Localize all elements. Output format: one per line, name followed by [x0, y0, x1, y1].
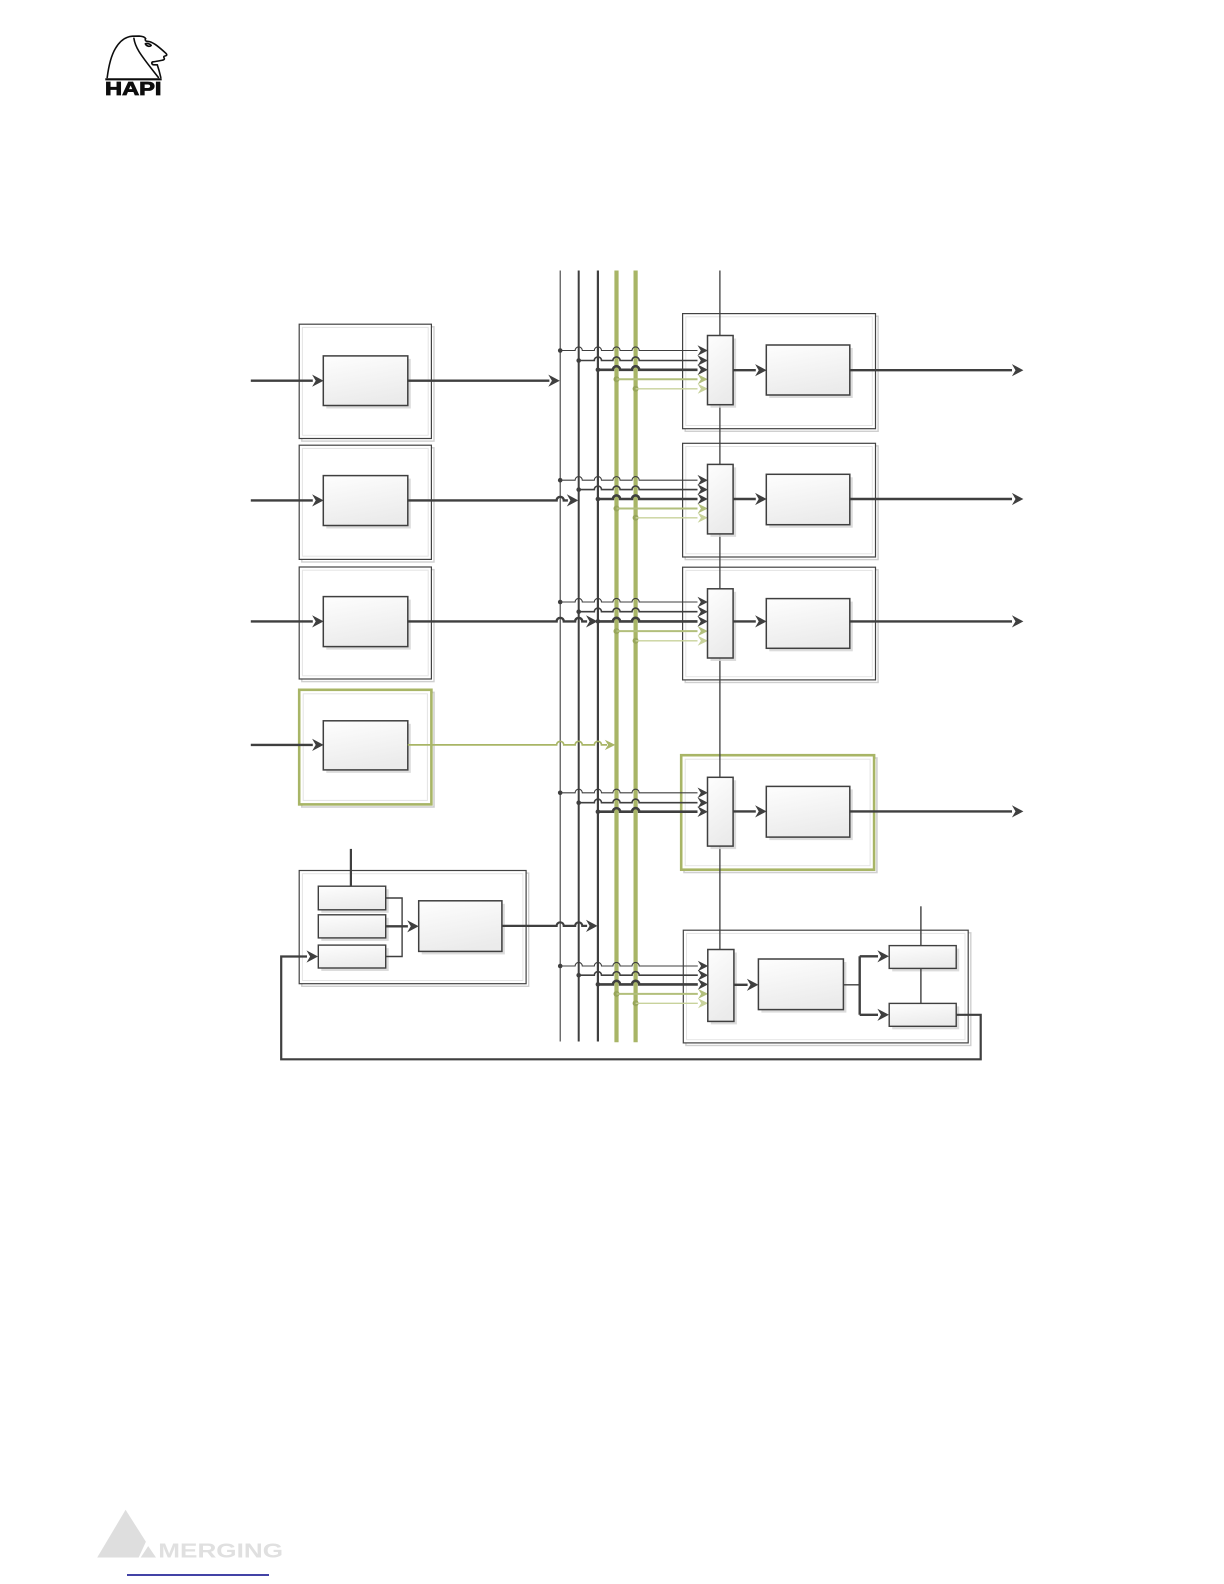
wire: mux 5 to monitor block [734, 979, 759, 991]
wire: bus 4 tap to output mux 1 [614, 374, 708, 384]
mix block [419, 901, 505, 955]
bus line 2 [578, 271, 580, 1042]
output block 4 [766, 786, 853, 840]
monitor out box upper [889, 946, 959, 972]
output mux 4 [708, 777, 737, 849]
wire: mux 1 to output block 1 [733, 364, 767, 376]
wire: mux 4 to output block 4 [733, 805, 767, 817]
wire: bus 1 tap to output mux 1 [558, 345, 708, 356]
wire: bus 5 tap to output mux 5 [633, 998, 709, 1008]
HAPI logo lion head [107, 36, 167, 77]
output group 3 outer box [683, 567, 879, 682]
wire: bus 3 tap to output mux 3 [596, 616, 708, 627]
wire: bus 2 tap to output mux 3 [576, 606, 708, 617]
wire: stem above control box A [350, 849, 352, 886]
wire: external input 3 [251, 615, 324, 627]
wire: bus 2 tap to output mux 2 [576, 484, 708, 495]
control box A [318, 886, 388, 913]
wire: bus 2 tap to output mux 5 [576, 970, 708, 981]
input block 1 [323, 356, 411, 409]
wire: bus 1 tap to output mux 2 [558, 475, 708, 486]
control box B [318, 915, 388, 941]
MERGING logo small triangle [141, 1546, 156, 1557]
output block 3 [766, 599, 853, 652]
wire: input 3 to bus 3 [408, 615, 598, 627]
wire: bus 3 tap to output mux 2 [596, 494, 708, 505]
wire: feedback loop to control box C [281, 950, 981, 1059]
bus line 5 (green) [633, 271, 637, 1043]
wire: bus 3 tap to output mux 5 [596, 979, 709, 990]
wire: stem above upper out box [920, 906, 922, 945]
monitor block [758, 959, 846, 1013]
output group 1 outer box [683, 314, 879, 432]
input block 4 [323, 721, 411, 773]
input block 3 [323, 597, 411, 650]
MERGING logo large triangle [97, 1510, 146, 1558]
wire: bus 1 tap to output mux 5 [558, 961, 708, 972]
control group outer box [299, 871, 528, 987]
wire: bus 2 tap to output mux 1 [576, 355, 708, 366]
output mux 1 [708, 336, 737, 408]
output block 1 [766, 345, 853, 398]
svg-text:HAPI: HAPI [105, 78, 162, 99]
wire: bus 4 tap to output mux 2 [614, 504, 708, 514]
output mux 2 [708, 464, 737, 537]
wire: output 2 external [850, 493, 1024, 505]
wire: output 4 external [850, 805, 1024, 817]
output group 4 outer box [681, 755, 877, 872]
wire: bus 2 tap to output mux 4 [576, 797, 708, 808]
input group 4 outer box [299, 690, 434, 807]
wire: output 1 external [850, 364, 1024, 376]
input group 2 outer box [299, 445, 434, 562]
input group 1 outer box [299, 324, 434, 441]
output group 2 outer box [683, 443, 879, 559]
wire: input 1 to bus 1 [408, 375, 560, 387]
wire: vertical select line [719, 271, 721, 950]
monitor out box lower [889, 1003, 959, 1029]
wire: input 2 to bus 2 [408, 494, 579, 506]
bus line 1 [559, 271, 561, 1042]
wire: A B C bracket to mix block [386, 898, 419, 957]
output mux 3 [708, 589, 737, 661]
wire: bus 4 tap to output mux 3 [614, 626, 708, 636]
wire: external input 1 [251, 375, 324, 387]
wire: bus 4 tap to output mux 5 [614, 989, 709, 999]
wire: input 4 to green bus 4 [408, 740, 616, 750]
input block 2 [323, 476, 411, 529]
wire: bus 5 tap to output mux 1 [633, 384, 708, 394]
monitor group outer box [683, 930, 971, 1045]
wire: bus 1 tap to output mux 3 [558, 597, 708, 608]
wire: upper to lower out box [920, 968, 922, 1003]
wire: bus 3 tap to output mux 1 [596, 365, 708, 376]
output mux 5 [708, 950, 737, 1025]
wire: external input 4 [251, 739, 324, 751]
wire: bus 3 tap to output mux 4 [596, 806, 708, 817]
wire: monitor block split to outputs [843, 950, 889, 1021]
control box C [318, 945, 388, 971]
wire: external input 2 [251, 494, 324, 506]
wire: mux 2 to output block 2 [733, 493, 767, 505]
footer rule [127, 1574, 269, 1576]
svg-text:MERGING: MERGING [158, 1541, 283, 1563]
input group 3 outer box [299, 567, 434, 682]
bus line 4 (green) [614, 271, 618, 1043]
bus line 3 [597, 271, 599, 1042]
wire: bus 5 tap to output mux 2 [633, 513, 708, 523]
wire: output 3 external [850, 615, 1024, 627]
wire: mux 3 to output block 3 [733, 615, 767, 627]
output block 2 [766, 474, 853, 527]
wire: mix block to bus 3 [502, 920, 598, 932]
wire: bus 5 tap to output mux 3 [633, 636, 708, 646]
wire: bus 1 tap to output mux 4 [558, 788, 708, 799]
HAPI logo baseline [105, 78, 161, 80]
